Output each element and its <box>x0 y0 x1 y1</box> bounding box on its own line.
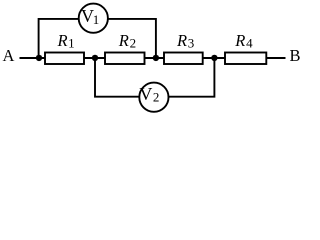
svg-text:2: 2 <box>153 89 160 104</box>
node 1 (junction dot) <box>36 55 42 61</box>
wire: R2 to R3 through node 3 <box>144 57 165 59</box>
resistor R2 <box>105 53 145 65</box>
resistor R3 <box>164 53 203 65</box>
svg-text:1: 1 <box>93 12 100 27</box>
voltmeter V1 <box>79 4 108 33</box>
node 4 (junction dot) <box>211 55 217 61</box>
svg-text:R: R <box>176 31 187 50</box>
svg-text:V: V <box>139 84 152 104</box>
wire: V2 branch left (node 2 down and right to V2) <box>95 58 140 97</box>
svg-text:R: R <box>57 31 68 50</box>
wire: V1 branch left (node 1 up and right to V1) <box>39 19 80 58</box>
wire: V1 branch right (V1 right and down to node 3) <box>107 19 156 58</box>
voltmeter V2 <box>139 83 168 112</box>
svg-text:B: B <box>290 46 301 65</box>
svg-text:2: 2 <box>130 35 137 50</box>
wire: R4 to terminal B <box>266 57 286 59</box>
svg-text:R: R <box>118 31 129 50</box>
wire: terminal A to node 1 / R1 <box>20 57 46 59</box>
svg-text:1: 1 <box>68 35 75 50</box>
wire: V2 branch right (V2 right and up to node 4) <box>168 58 214 97</box>
svg-text:3: 3 <box>188 35 195 50</box>
resistor R4 <box>225 53 266 65</box>
wire: R1 to R2 through node 2 <box>84 57 106 59</box>
svg-text:R: R <box>234 31 245 50</box>
svg-text:A: A <box>3 46 15 65</box>
svg-text:4: 4 <box>246 35 253 50</box>
node 2 (junction dot) <box>92 55 98 61</box>
wire: R3 to R4 through node 4 <box>203 57 226 59</box>
resistor R1 <box>45 53 84 65</box>
node 3 (junction dot) <box>153 55 159 61</box>
